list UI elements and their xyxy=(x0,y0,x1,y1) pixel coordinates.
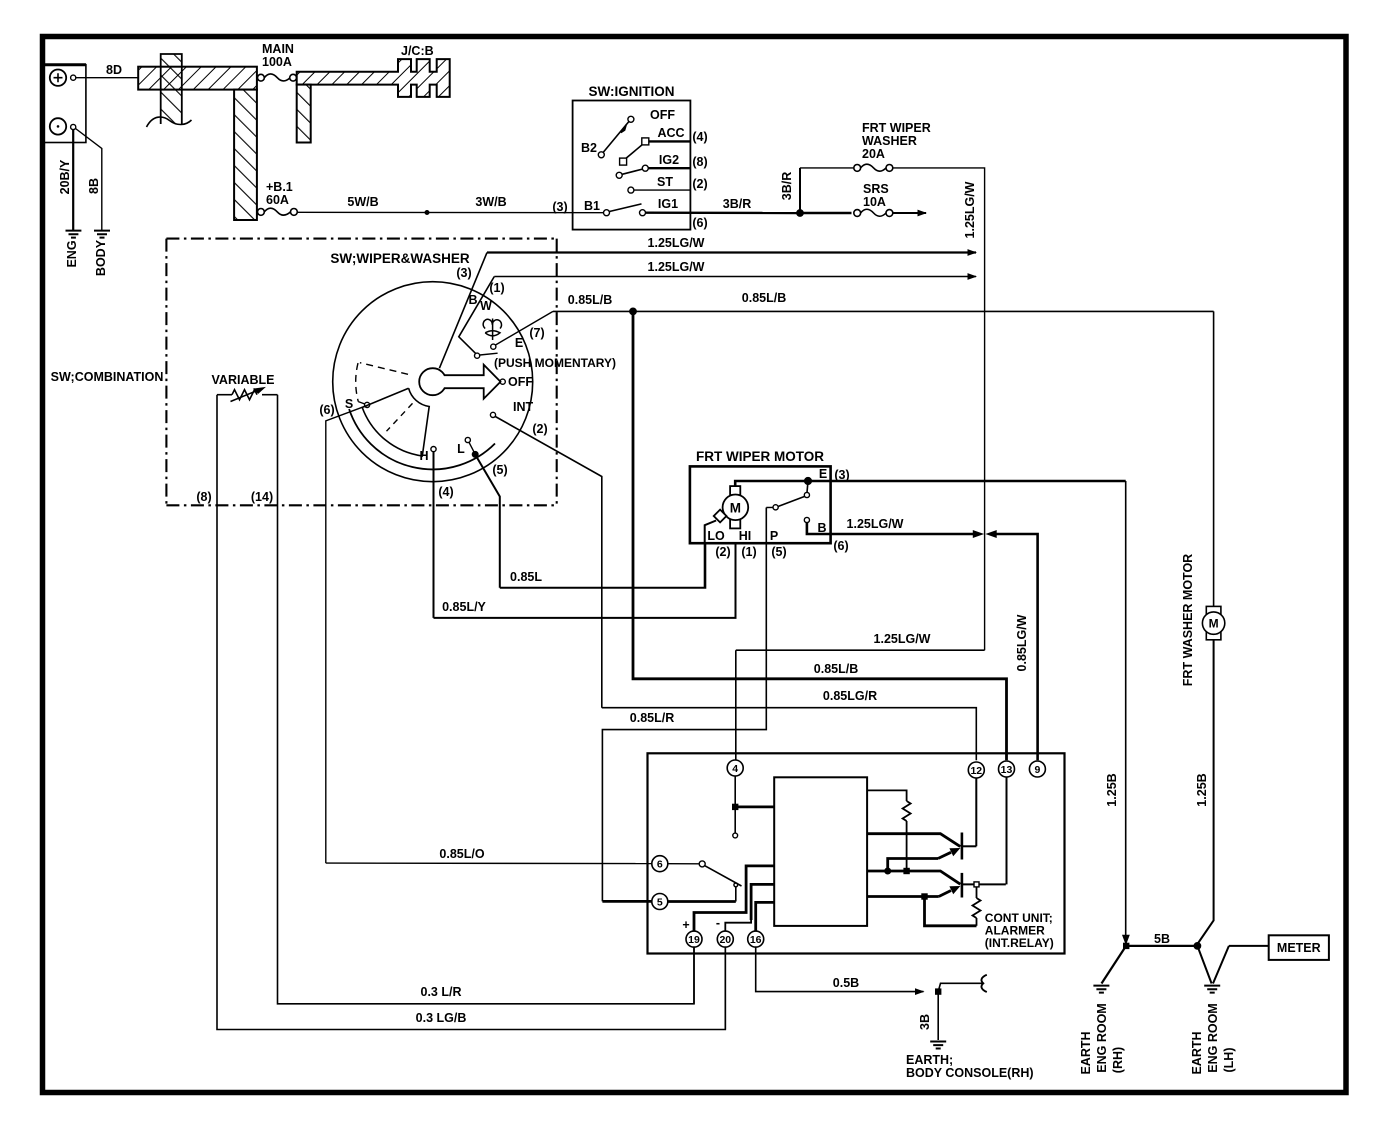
wire 1.25B left (from E) xyxy=(1125,481,1127,937)
contact B1 with arm xyxy=(604,210,610,216)
wire 20B/Y xyxy=(72,130,74,231)
svg-text:(5): (5) xyxy=(771,545,786,559)
riser hatched with break xyxy=(147,54,192,127)
ground EARTH ENG ROOM (RH) xyxy=(1093,986,1109,993)
wire 0.85L/Y xyxy=(434,543,736,618)
svg-text:6: 6 xyxy=(657,859,663,871)
svg-text:1.25LG/W: 1.25LG/W xyxy=(648,260,705,274)
svg-text:1.25LG/W: 1.25LG/W xyxy=(847,517,904,531)
svg-text:5: 5 xyxy=(657,897,663,909)
wire E internal xyxy=(735,481,1125,486)
contact H xyxy=(431,447,436,452)
svg-text:(2): (2) xyxy=(692,177,707,191)
svg-text:J/C:B: J/C:B xyxy=(401,44,434,58)
contact S xyxy=(365,402,370,407)
wire 0.85L/B from E xyxy=(496,311,554,345)
variable resistor xyxy=(217,388,278,402)
svg-text:BODY: BODY xyxy=(94,239,108,276)
transistor Q2 xyxy=(961,873,964,898)
svg-text:ENG ROOM: ENG ROOM xyxy=(1095,1003,1109,1072)
svg-text:E: E xyxy=(819,467,827,481)
svg-text:8D: 8D xyxy=(106,63,122,77)
wire 8D xyxy=(76,77,138,79)
svg-text:(8): (8) xyxy=(196,490,211,504)
svg-text:0.85L/B: 0.85L/B xyxy=(814,662,858,676)
contact B2 with arm xyxy=(598,152,604,158)
relay pole from 4 xyxy=(734,776,736,833)
terminal 13 xyxy=(999,761,1015,777)
svg-text:METER: METER xyxy=(1277,941,1321,955)
wire L (5) xyxy=(477,457,500,588)
earth lead LH (V) xyxy=(1197,946,1229,984)
CONT UNIT box xyxy=(648,753,1065,953)
terminal 6 xyxy=(652,856,668,872)
svg-text:60A: 60A xyxy=(266,193,289,207)
wire from 20 xyxy=(725,884,774,931)
svg-text:EARTH: EARTH xyxy=(1190,1031,1204,1074)
rotary switch body xyxy=(333,282,533,482)
contact ST xyxy=(628,187,634,193)
svg-text:P: P xyxy=(770,529,778,543)
svg-text:(6): (6) xyxy=(319,403,334,417)
wire 5W/B xyxy=(297,211,603,213)
svg-text:(3): (3) xyxy=(456,266,471,280)
svg-text:E: E xyxy=(515,336,523,350)
svg-text:B: B xyxy=(468,293,477,307)
svg-text:L: L xyxy=(457,442,465,456)
wire 3B xyxy=(937,992,939,1040)
svg-text:(14): (14) xyxy=(251,490,273,504)
svg-text:ST: ST xyxy=(657,175,673,189)
svg-text:(6): (6) xyxy=(833,539,848,553)
wire 0.5B from 16 xyxy=(756,947,924,992)
svg-text:9: 9 xyxy=(1034,764,1040,776)
contact ACC xyxy=(642,138,649,145)
svg-text:100A: 100A xyxy=(262,55,292,69)
svg-text:16: 16 xyxy=(750,934,762,946)
svg-text:3B/R: 3B/R xyxy=(780,172,794,200)
pigtail connector xyxy=(938,983,983,991)
svg-text:SRS: SRS xyxy=(863,182,889,196)
junction xyxy=(425,211,429,215)
svg-text:FRT WASHER MOTOR: FRT WASHER MOTOR xyxy=(1181,554,1195,686)
svg-text:(RH): (RH) xyxy=(1111,1047,1125,1073)
terminal 20 xyxy=(717,931,733,947)
svg-text:1.25LG/W: 1.25LG/W xyxy=(874,632,931,646)
wire 1.25LG/W vertical from 20A fuse xyxy=(893,168,985,650)
svg-text:3W/B: 3W/B xyxy=(475,195,506,209)
svg-text:LO: LO xyxy=(707,529,725,543)
earth lead RH xyxy=(1102,948,1126,984)
ground EARTH BODY CONSOLE(RH) xyxy=(930,1042,946,1049)
svg-text:SW;COMBINATION: SW;COMBINATION xyxy=(51,370,164,384)
junction 0.85L/B xyxy=(630,308,636,314)
svg-text:H: H xyxy=(419,449,428,463)
svg-text:0.85L/O: 0.85L/O xyxy=(439,847,484,861)
svg-text:+: + xyxy=(682,918,689,932)
busbar J/C:B (hatched comb) xyxy=(297,59,450,142)
svg-text:ACC: ACC xyxy=(657,126,684,140)
svg-text:(LH): (LH) xyxy=(1222,1048,1236,1073)
svg-text:19: 19 xyxy=(688,934,700,946)
svg-text:M: M xyxy=(730,501,741,516)
terminal 9 xyxy=(1029,761,1045,777)
SW;COMBINATION dash-dot box xyxy=(166,239,556,506)
METER box xyxy=(1269,935,1329,960)
svg-text:SW;WIPER&WASHER: SW;WIPER&WASHER xyxy=(330,251,470,266)
wire 1.25LG/W (1) xyxy=(494,276,976,278)
svg-text:B: B xyxy=(817,521,826,535)
svg-text:0.85L/B: 0.85L/B xyxy=(568,293,612,307)
terminal 4 xyxy=(727,760,743,776)
wire from 19 xyxy=(694,866,774,931)
wire 0.3 LG/B from 20 xyxy=(724,947,726,1029)
wire H (4) xyxy=(433,452,435,618)
fuse FRT WIPER WASHER 20A xyxy=(854,164,893,171)
wire (14) xyxy=(278,395,695,1004)
busbar battery feed (hatched) xyxy=(138,67,257,220)
svg-text:OFF: OFF xyxy=(650,108,675,122)
svg-text:(5): (5) xyxy=(492,463,507,477)
svg-text:0.3 LG/B: 0.3 LG/B xyxy=(416,1011,467,1025)
wire 0.3 L/R from 19 xyxy=(693,947,695,1004)
contact L xyxy=(465,437,470,442)
svg-text:1.25LG/W: 1.25LG/W xyxy=(963,181,977,238)
svg-text:(1): (1) xyxy=(489,281,504,295)
svg-text:20B/Y: 20B/Y xyxy=(58,159,72,194)
wire 0.85L xyxy=(500,543,706,588)
wire LO xyxy=(705,521,716,588)
svg-text:10A: 10A xyxy=(863,195,886,209)
ground EARTH ENG ROOM (LH) xyxy=(1204,986,1220,993)
svg-text:5W/B: 5W/B xyxy=(347,195,378,209)
rotor xyxy=(419,368,446,395)
wire to METER xyxy=(1229,945,1269,947)
transistor Q1 xyxy=(961,833,964,860)
svg-text:3B: 3B xyxy=(918,1014,932,1030)
wire INT (2) xyxy=(495,417,602,708)
svg-text:0.85L/B: 0.85L/B xyxy=(742,291,786,305)
svg-text:W: W xyxy=(480,299,492,313)
svg-text:(3): (3) xyxy=(834,468,849,482)
svg-text:20A: 20A xyxy=(862,147,885,161)
wire SRS output with arrow xyxy=(893,212,926,214)
svg-text:0.3 L/R: 0.3 L/R xyxy=(421,985,462,999)
svg-text:(INT.RELAY): (INT.RELAY) xyxy=(985,936,1054,950)
svg-text:OFF: OFF xyxy=(508,375,533,389)
svg-text:(1): (1) xyxy=(741,545,756,559)
fuse +B.1 60A xyxy=(258,208,298,215)
svg-text:4: 4 xyxy=(732,763,738,775)
contact W with arm xyxy=(475,353,480,358)
wire (8) xyxy=(217,395,725,1030)
motor M xyxy=(714,486,748,528)
battery xyxy=(44,65,86,143)
wire 0.85L/B down to 13 xyxy=(633,311,1007,760)
svg-text:SW:IGNITION: SW:IGNITION xyxy=(589,84,675,99)
svg-text:S: S xyxy=(345,397,353,411)
junction E xyxy=(805,478,812,485)
svg-text:(PUSH MOMENTARY): (PUSH MOMENTARY) xyxy=(494,356,616,370)
wire 1.25LG/W to terminal 4 xyxy=(736,650,985,760)
fuse SRS 10A xyxy=(854,209,893,216)
contact E xyxy=(491,344,496,349)
svg-text:0.85L: 0.85L xyxy=(510,570,542,584)
wire 8B xyxy=(76,129,102,231)
resistor R2 xyxy=(974,882,979,887)
wire 0.85L/R xyxy=(602,508,766,902)
wire 0.85LG/R xyxy=(602,708,977,761)
svg-text:0.85LG/R: 0.85LG/R xyxy=(823,689,877,703)
ground ENG xyxy=(66,231,82,238)
contact B of motor xyxy=(804,517,809,522)
wire 3B/R junction xyxy=(797,210,803,216)
terminal 5 xyxy=(652,894,668,910)
svg-text:8B: 8B xyxy=(87,178,101,194)
svg-text:0.85L/R: 0.85L/R xyxy=(630,711,674,725)
terminal 19 xyxy=(686,931,702,947)
svg-text:FRT WIPER MOTOR: FRT WIPER MOTOR xyxy=(696,449,824,464)
svg-text:EARTH;: EARTH; xyxy=(906,1053,953,1067)
svg-text:(8): (8) xyxy=(692,155,707,169)
svg-text:5B: 5B xyxy=(1154,932,1170,946)
svg-text:(7): (7) xyxy=(529,326,544,340)
svg-text:0.5B: 0.5B xyxy=(833,976,859,990)
svg-text:1.25B: 1.25B xyxy=(1195,773,1209,806)
svg-text:VARIABLE: VARIABLE xyxy=(212,373,275,387)
svg-text:ENG ROOM: ENG ROOM xyxy=(1206,1003,1220,1072)
wire B (3) xyxy=(439,253,487,369)
svg-text:HI: HI xyxy=(739,529,752,543)
svg-text:B1: B1 xyxy=(584,199,600,213)
svg-text:12: 12 xyxy=(970,765,982,777)
SW:IGNITION box xyxy=(573,101,691,230)
arrows at 1.25LG/W junction xyxy=(974,531,983,537)
wire 0.85LG/W to terminal 9 xyxy=(995,534,1038,760)
svg-text:ENG: ENG xyxy=(65,240,79,267)
svg-text:13: 13 xyxy=(1001,764,1013,776)
fuse MAIN 100A xyxy=(258,74,297,81)
svg-text:(4): (4) xyxy=(438,485,453,499)
svg-text:(4): (4) xyxy=(692,130,707,144)
svg-text:BODY CONSOLE(RH): BODY CONSOLE(RH) xyxy=(906,1066,1034,1080)
FRT WASHER MOTOR xyxy=(1202,606,1224,639)
dashed wedge xyxy=(356,363,408,405)
washer icon xyxy=(483,319,501,341)
terminal 16 xyxy=(748,931,764,947)
wire from 16 xyxy=(756,902,775,931)
wire 1.25LG/W (3) xyxy=(487,251,976,253)
resistor R1 xyxy=(867,790,907,801)
wire 0.85L/B horizontal xyxy=(553,310,1214,312)
svg-text:WASHER: WASHER xyxy=(862,134,917,148)
wire W (1) xyxy=(459,277,495,354)
terminal 12 xyxy=(968,762,984,778)
svg-text:+B.1: +B.1 xyxy=(266,180,293,194)
svg-text:0.85LG/W: 0.85LG/W xyxy=(1015,614,1029,671)
inner arc xyxy=(349,409,495,469)
contact IG2 xyxy=(642,165,648,171)
svg-text:B2: B2 xyxy=(581,141,597,155)
wire 5B xyxy=(1124,943,1129,948)
contact OFF xyxy=(500,379,505,384)
solid wedge xyxy=(362,388,429,456)
svg-text:1.25B: 1.25B xyxy=(1105,773,1119,806)
contact INT xyxy=(490,412,495,417)
contact OFF xyxy=(628,116,634,122)
svg-text:(6): (6) xyxy=(692,216,707,230)
svg-text:20: 20 xyxy=(719,934,731,946)
svg-text:M: M xyxy=(1209,617,1219,631)
svg-text:EARTH: EARTH xyxy=(1079,1031,1093,1074)
svg-text:(2): (2) xyxy=(715,545,730,559)
svg-text:-: - xyxy=(716,916,720,930)
svg-text:IG1: IG1 xyxy=(658,197,678,211)
relay switch 6-5 xyxy=(668,863,699,865)
svg-text:1.25LG/W: 1.25LG/W xyxy=(648,236,705,250)
wire S (6) xyxy=(326,406,365,863)
ground BODY xyxy=(94,231,110,238)
svg-text:(3): (3) xyxy=(552,200,567,214)
wire 0.85L/O into 6 xyxy=(326,862,652,865)
wire 0.85L/B to washer motor xyxy=(1213,311,1215,611)
svg-text:FRT WIPER: FRT WIPER xyxy=(862,121,931,135)
FRT WIPER MOTOR box xyxy=(690,466,831,543)
svg-text:IG2: IG2 xyxy=(659,153,679,167)
svg-text:MAIN: MAIN xyxy=(262,42,294,56)
svg-text:(2): (2) xyxy=(532,422,547,436)
park switch xyxy=(807,481,808,493)
contact IG1 xyxy=(640,210,646,216)
svg-text:0.85L/Y: 0.85L/Y xyxy=(442,600,486,614)
svg-text:3B/R: 3B/R xyxy=(723,197,751,211)
IC block xyxy=(774,777,867,926)
svg-text:INT: INT xyxy=(513,400,534,414)
wire 1.25B right xyxy=(1198,640,1214,944)
